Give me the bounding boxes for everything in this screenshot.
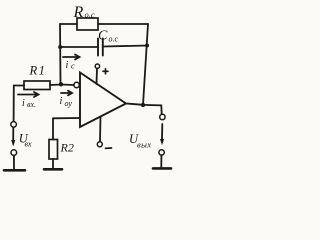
svg-text:R2: R2 — [60, 141, 74, 155]
svg-text:о.с: о.с — [109, 35, 119, 44]
label Cо.с — [98, 29, 119, 44]
svg-text:вых: вых — [137, 140, 151, 150]
wire: lower terminal to ground — [13, 156, 15, 169]
label iс — [66, 60, 76, 71]
input terminal upper circle — [11, 122, 17, 128]
op-amp positive supply pin — [95, 64, 99, 84]
label Uвых — [129, 132, 151, 150]
wire: output to terminal corner — [143, 105, 162, 114]
resistor Rо.с — [77, 18, 98, 30]
input terminal lower circle — [11, 150, 17, 156]
wire: top feedback horizontal (left of Roc) — [60, 23, 77, 25]
current arrow iвх — [18, 92, 39, 97]
junction: output / feedback — [141, 103, 145, 107]
svg-text:о.с: о.с — [85, 10, 95, 20]
svg-text:R1: R1 — [29, 64, 47, 78]
label R1 — [29, 64, 47, 78]
svg-text:i: i — [66, 60, 69, 71]
wire: input horizontal (terminal to R1) — [14, 85, 24, 87]
wire: left feedback vertical — [59, 24, 62, 84]
label − (negative supply) — [106, 147, 112, 149]
svg-text:с: с — [71, 62, 75, 71]
svg-text:вх.: вх. — [27, 100, 36, 109]
capacitor Cо.с — [98, 39, 103, 56]
wire: R2 top vertical — [52, 118, 54, 139]
ground (output) — [153, 167, 171, 170]
svg-text:i: i — [22, 98, 25, 109]
label Uвх — [19, 132, 32, 149]
wire: R1 to summing node — [50, 84, 61, 87]
current arrow iс — [63, 55, 80, 60]
ground (input) — [4, 169, 25, 172]
wire: op-amp output — [126, 104, 143, 105]
wire: non-inverting input — [53, 117, 80, 119]
wire: top feedback horizontal (right of Roc) — [98, 23, 148, 25]
voltage arrow Uвх — [11, 128, 15, 147]
op-amp negative supply pin — [97, 117, 102, 147]
wire: capacitor branch left — [60, 46, 98, 48]
label + (positive supply) — [103, 69, 108, 74]
op-amp triangle — [80, 73, 126, 128]
wire: right feedback vertical — [143, 24, 148, 105]
voltage arrow Uвых — [160, 124, 164, 145]
label iвх. — [22, 98, 36, 109]
output terminal lower circle — [159, 150, 164, 155]
label iоу — [60, 96, 73, 108]
svg-text:C: C — [98, 29, 108, 44]
junction: left vertical / capacitor branch — [58, 45, 62, 49]
output terminal upper circle — [160, 114, 165, 119]
label Rо.с — [73, 4, 95, 21]
wire: summing node to inverting input — [61, 84, 74, 87]
wire: capacitor branch right — [103, 46, 148, 47]
svg-text:i: i — [60, 96, 63, 107]
label R2 — [60, 141, 74, 155]
junction: right vertical / capacitor branch — [145, 44, 149, 48]
op-amp inverting input bubble — [74, 82, 79, 87]
resistor R1 — [24, 81, 50, 90]
wire: input vertical — [13, 86, 15, 122]
wire: lower output terminal to ground — [160, 155, 162, 167]
resistor R2 — [49, 140, 58, 160]
svg-text:R: R — [73, 4, 84, 21]
ground (R2) — [44, 168, 62, 171]
junction: summing node — [59, 82, 63, 86]
svg-text:вх: вх — [25, 140, 32, 149]
current arrow iоу — [61, 91, 72, 96]
wire: R2 bottom to ground — [52, 159, 54, 168]
svg-text:оу: оу — [65, 99, 73, 108]
